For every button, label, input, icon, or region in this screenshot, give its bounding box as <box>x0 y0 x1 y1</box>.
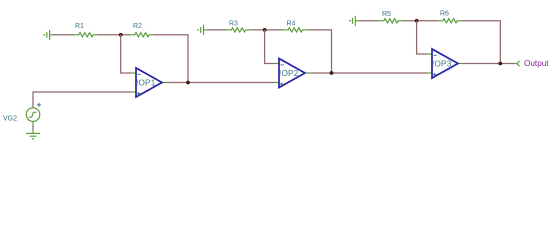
wire (node A down to inverting input) <box>121 35 132 73</box>
ground (stage 2 input) <box>197 25 207 35</box>
svg-text:!OP1: !OP1 <box>136 78 156 87</box>
node A junction <box>119 33 123 37</box>
svg-text:R1: R1 <box>75 23 84 30</box>
wire <box>251 29 284 31</box>
svg-text:!OP3: !OP3 <box>432 59 452 68</box>
wire <box>53 34 74 36</box>
node B junction <box>263 28 267 32</box>
junction (OP2 output / feedback) <box>330 71 334 75</box>
svg-text:!OP2: !OP2 <box>279 69 299 78</box>
node Output pin <box>514 61 519 66</box>
svg-text:R5: R5 <box>382 11 391 18</box>
voltage source VG2 <box>26 103 41 121</box>
wire (node B down to inverting input) <box>265 30 275 64</box>
wire <box>403 20 438 22</box>
svg-text:VG2: VG2 <box>3 116 17 123</box>
wire (OP3 output row) <box>463 63 515 65</box>
wire (feedback to OP3 output) <box>462 21 500 64</box>
wire <box>359 20 379 22</box>
svg-text:Output: Output <box>524 59 549 68</box>
wire (feedback to OP1 output) <box>154 35 188 83</box>
node C junction <box>415 19 419 23</box>
resistor R6 <box>437 19 462 23</box>
svg-text:R2: R2 <box>133 23 142 30</box>
resistor R4 <box>283 28 308 32</box>
resistor R2 <box>129 33 154 37</box>
wire (OP2 output row) <box>310 72 428 74</box>
svg-text:R3: R3 <box>229 20 238 27</box>
junction (OP3 output / feedback) <box>498 62 502 66</box>
resistor R3 <box>226 28 251 32</box>
svg-text:R4: R4 <box>287 20 296 27</box>
wire (VG2 to non-inverting input) <box>33 92 132 108</box>
wire <box>98 34 130 36</box>
junction (OP1 output / feedback) <box>186 81 190 85</box>
resistor R1 <box>73 33 98 37</box>
ground (below VG2) <box>26 133 40 138</box>
op-amp OP1 <box>132 68 167 97</box>
op-amp OP2 <box>275 59 310 88</box>
resistor R5 <box>378 19 403 23</box>
ground (stage 3 input) <box>349 16 359 26</box>
wire (OP1 output row) <box>167 82 275 84</box>
svg-text:R6: R6 <box>440 10 449 17</box>
ground (stage 1 input) <box>43 30 53 40</box>
wire (node C down to inverting input) <box>417 21 428 54</box>
wire (VG2 to ground) <box>32 121 34 124</box>
op-amp OP3 <box>428 49 463 78</box>
wire <box>207 29 227 31</box>
wire (feedback to OP2 output) <box>307 30 332 73</box>
